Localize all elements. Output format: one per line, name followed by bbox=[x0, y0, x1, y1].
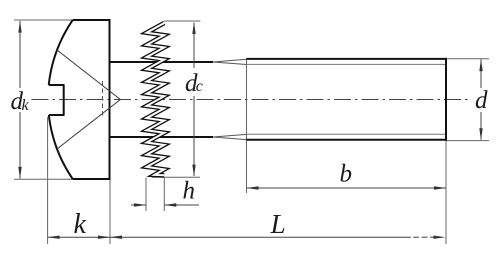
knurled collar zigzag bbox=[147, 23, 165, 175]
shank top line bbox=[110, 61, 214, 63]
dimension b line bbox=[247, 187, 447, 189]
extension line head top (for d_k) bbox=[14, 19, 74, 21]
extension line knurl bottom (for d_c) bbox=[152, 176, 200, 178]
dimension k arrows bbox=[48, 236, 60, 239]
extension line rod bottom right (for d) bbox=[446, 140, 489, 142]
extension line knurl right (for h) bbox=[163, 178, 165, 212]
shank bottom line bbox=[110, 136, 214, 138]
dimension h arrows bbox=[134, 203, 146, 206]
cross recess cone upper line bbox=[57, 50, 120, 100]
dimension h lines bbox=[131, 204, 146, 206]
head crown arc upper bbox=[49, 20, 73, 85]
extension line head right face (for k and L) bbox=[109, 179, 111, 244]
svg-text:L: L bbox=[270, 209, 286, 239]
dimension L line bbox=[110, 236, 411, 238]
cross recess cone lower line bbox=[57, 100, 120, 150]
extension line rod top right (for d) bbox=[446, 58, 489, 60]
svg-text:h: h bbox=[183, 178, 196, 205]
dimension d_k arrows bbox=[18, 21, 21, 33]
head right face bbox=[109, 19, 111, 180]
thread run-out wedge bottom bbox=[213, 134, 247, 139]
dimension d arrows bbox=[479, 59, 482, 71]
dimension d_c line bbox=[193, 23, 195, 177]
cross recess depth dashed line bbox=[102, 81, 104, 119]
extension line rod end (for b and L) bbox=[445, 140, 447, 244]
svg-text:k: k bbox=[74, 209, 87, 240]
extension line knurl left (for h) bbox=[145, 178, 147, 212]
rod end face bbox=[445, 58, 447, 141]
svg-text:c: c bbox=[196, 78, 203, 95]
dimension L arrows bbox=[110, 236, 122, 239]
thread major diameter bottom line bbox=[247, 139, 447, 141]
head top flat bbox=[73, 19, 110, 21]
thread major diameter top line bbox=[247, 58, 447, 60]
screw head outline bbox=[49, 19, 110, 180]
head bottom flat bbox=[73, 178, 110, 180]
svg-text:b: b bbox=[340, 161, 353, 188]
thread root top thin line bbox=[247, 63, 447, 65]
thread root bottom thin line bbox=[247, 133, 447, 135]
dimension b arrows bbox=[247, 186, 259, 189]
extension line head left extreme (for k) bbox=[47, 117, 49, 244]
extension line head bottom (for d_k) bbox=[14, 178, 73, 180]
thread run-out wedge top bbox=[213, 59, 247, 64]
extension line thread start (for b) bbox=[246, 58, 248, 193]
centerline (axis) bbox=[32, 99, 471, 101]
dimension k line bbox=[48, 236, 110, 238]
dimension d_c arrows bbox=[192, 22, 195, 34]
recess slot notch bbox=[49, 85, 64, 115]
svg-text:d: d bbox=[475, 87, 488, 114]
head crown arc lower bbox=[49, 115, 73, 179]
svg-text:k: k bbox=[22, 97, 30, 114]
dimension d line bbox=[480, 60, 482, 140]
extension line knurl top (for d_c) bbox=[164, 20, 201, 22]
dimension d_k line bbox=[19, 21, 21, 179]
